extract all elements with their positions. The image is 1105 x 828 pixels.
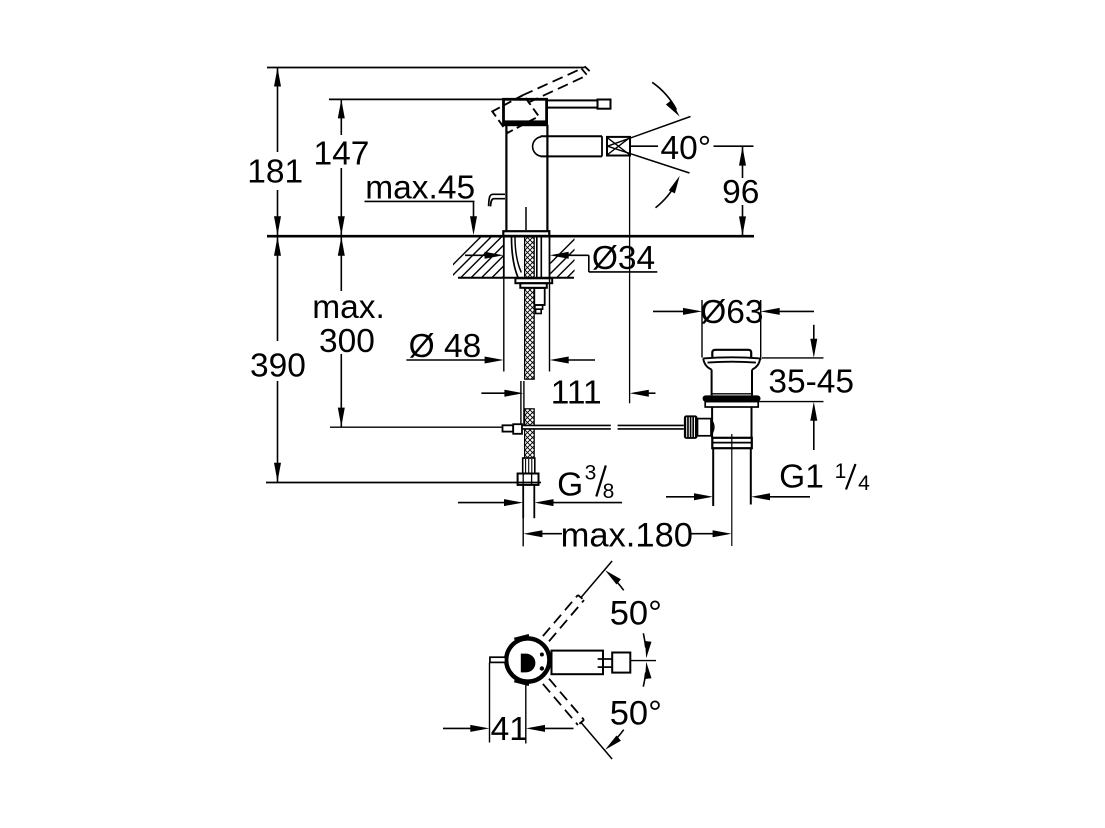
horizontal pop-up rod <box>522 425 611 429</box>
angle arc lower 50 inner <box>643 672 645 686</box>
faucet lever horizontal <box>547 100 598 107</box>
drain tailpipe <box>712 448 714 506</box>
braided hose upper <box>525 288 535 379</box>
dimension G114 <box>666 496 696 498</box>
svg-text:147: 147 <box>314 136 370 173</box>
svg-text:Ø63: Ø63 <box>700 294 763 331</box>
angle arc lower 40 <box>656 182 678 208</box>
svg-text:4: 4 <box>858 472 870 495</box>
dimension 96 <box>742 146 744 178</box>
faucet base plate <box>503 231 549 236</box>
faucet handle block <box>504 99 547 125</box>
dimension 147/max300 vertical line <box>340 99 342 135</box>
svg-text:max.180: max.180 <box>561 517 693 555</box>
max180 left ext line <box>522 512 524 546</box>
dia63 ext lines <box>701 300 703 358</box>
deck hole left wall / ext line <box>503 236 505 278</box>
deck hatch left <box>440 236 554 278</box>
svg-text:G: G <box>557 467 583 504</box>
topview spout neck <box>598 658 613 660</box>
faucet cartridge dashed tilted rect <box>492 95 539 133</box>
svg-text:Ø 48: Ø 48 <box>409 328 482 365</box>
topview lever dashed lower <box>549 679 584 720</box>
svg-text:8: 8 <box>603 480 615 503</box>
topview pull rod pin <box>490 657 506 662</box>
svg-text:max.: max. <box>312 289 385 326</box>
topview top tab <box>515 636 530 640</box>
drain collar <box>712 438 752 448</box>
svg-text:50°: 50° <box>610 595 662 633</box>
topview body circle <box>506 638 549 681</box>
node: counter deck line <box>267 235 754 238</box>
angle arc lower 50 outer <box>610 730 624 746</box>
dimension 41 <box>443 727 472 729</box>
faucet lever raised dashed <box>523 69 582 96</box>
mounting nut tier1 <box>515 278 552 283</box>
deck hole right wall / ext line <box>549 236 551 278</box>
angle arc upper 40 <box>652 82 676 109</box>
svg-text:96: 96 <box>722 174 759 211</box>
svg-text:35-45: 35-45 <box>768 364 854 401</box>
braided hose in deck <box>525 237 535 278</box>
dimension max180 <box>523 530 542 537</box>
dim dia63 line <box>653 310 684 312</box>
drain centerline <box>731 434 733 546</box>
hose nut <box>518 474 539 485</box>
stepped fitting <box>534 288 544 305</box>
dimension G38 <box>458 502 506 504</box>
aerator box <box>607 137 630 156</box>
faucet spout tube <box>541 135 603 137</box>
drain washer <box>705 402 758 407</box>
svg-text:390: 390 <box>250 347 306 384</box>
wire: handle-top reference line (147 level) <box>329 98 504 100</box>
drain knob stem <box>698 419 712 436</box>
rod tee block <box>513 424 522 434</box>
topview dot lower <box>540 666 544 670</box>
drain flange <box>703 357 760 369</box>
rod tube in hole <box>536 237 538 278</box>
topview bottom tab <box>515 680 530 684</box>
dimension dia34 <box>465 254 486 256</box>
ext line 41 right <box>525 685 527 744</box>
wire: top reference line (handle tip level) <box>267 67 585 69</box>
angle arc upper 50 outer <box>610 575 624 591</box>
pull rod vertical <box>520 381 522 425</box>
pop-up rod hook <box>489 194 505 206</box>
topview spout body <box>552 651 604 675</box>
faucet spout inner arc <box>533 137 541 156</box>
mounting nut tier2 <box>520 283 547 288</box>
topview spout cap <box>612 653 630 673</box>
svg-text:181: 181 <box>247 153 303 190</box>
deck hatch right <box>536 236 619 278</box>
drain side knob knurled <box>684 415 698 439</box>
dimension dia48 <box>406 359 485 361</box>
bent guide tube in hole <box>512 237 519 278</box>
faucet body walls <box>505 125 507 232</box>
dimension 35-45 <box>813 325 815 341</box>
spray cone lines <box>608 117 691 147</box>
rod tee small <box>503 425 514 431</box>
braided hose lower <box>525 409 535 458</box>
svg-text:Ø34: Ø34 <box>592 240 655 277</box>
spout drop line <box>629 157 631 404</box>
topview lever dashed upper <box>543 595 578 636</box>
svg-text:300: 300 <box>319 323 375 360</box>
ext lines 35-45 <box>762 357 824 359</box>
hose end fitting <box>523 458 535 474</box>
svg-text:50°: 50° <box>610 695 662 733</box>
thread stub G38 <box>522 485 524 518</box>
svg-text:111: 111 <box>551 375 602 412</box>
topview D mark <box>521 654 536 673</box>
drain knob <box>712 350 751 358</box>
topview centerline <box>630 660 656 662</box>
svg-text:41: 41 <box>491 711 528 748</box>
svg-text:3: 3 <box>585 462 597 485</box>
drain seal ring <box>703 395 761 401</box>
dimension 111 <box>481 392 505 394</box>
dimension 181/390 vertical line <box>277 68 279 153</box>
max300 extension line <box>330 426 502 428</box>
leader 40deg <box>631 145 659 147</box>
svg-text:40°: 40° <box>660 130 711 167</box>
svg-text:1: 1 <box>835 460 847 483</box>
drain neck <box>711 370 713 396</box>
wire: bottom reference line (390 level) <box>266 482 541 484</box>
leader max.45 <box>365 200 475 202</box>
angle arc upper 50 inner <box>643 633 645 647</box>
deck bottom line <box>458 277 574 279</box>
topview dot upper <box>540 653 544 657</box>
drain body <box>711 407 713 438</box>
ext line 41 left <box>489 663 491 743</box>
svg-text:G1: G1 <box>779 458 824 495</box>
pop-up rod inside body <box>525 207 527 230</box>
